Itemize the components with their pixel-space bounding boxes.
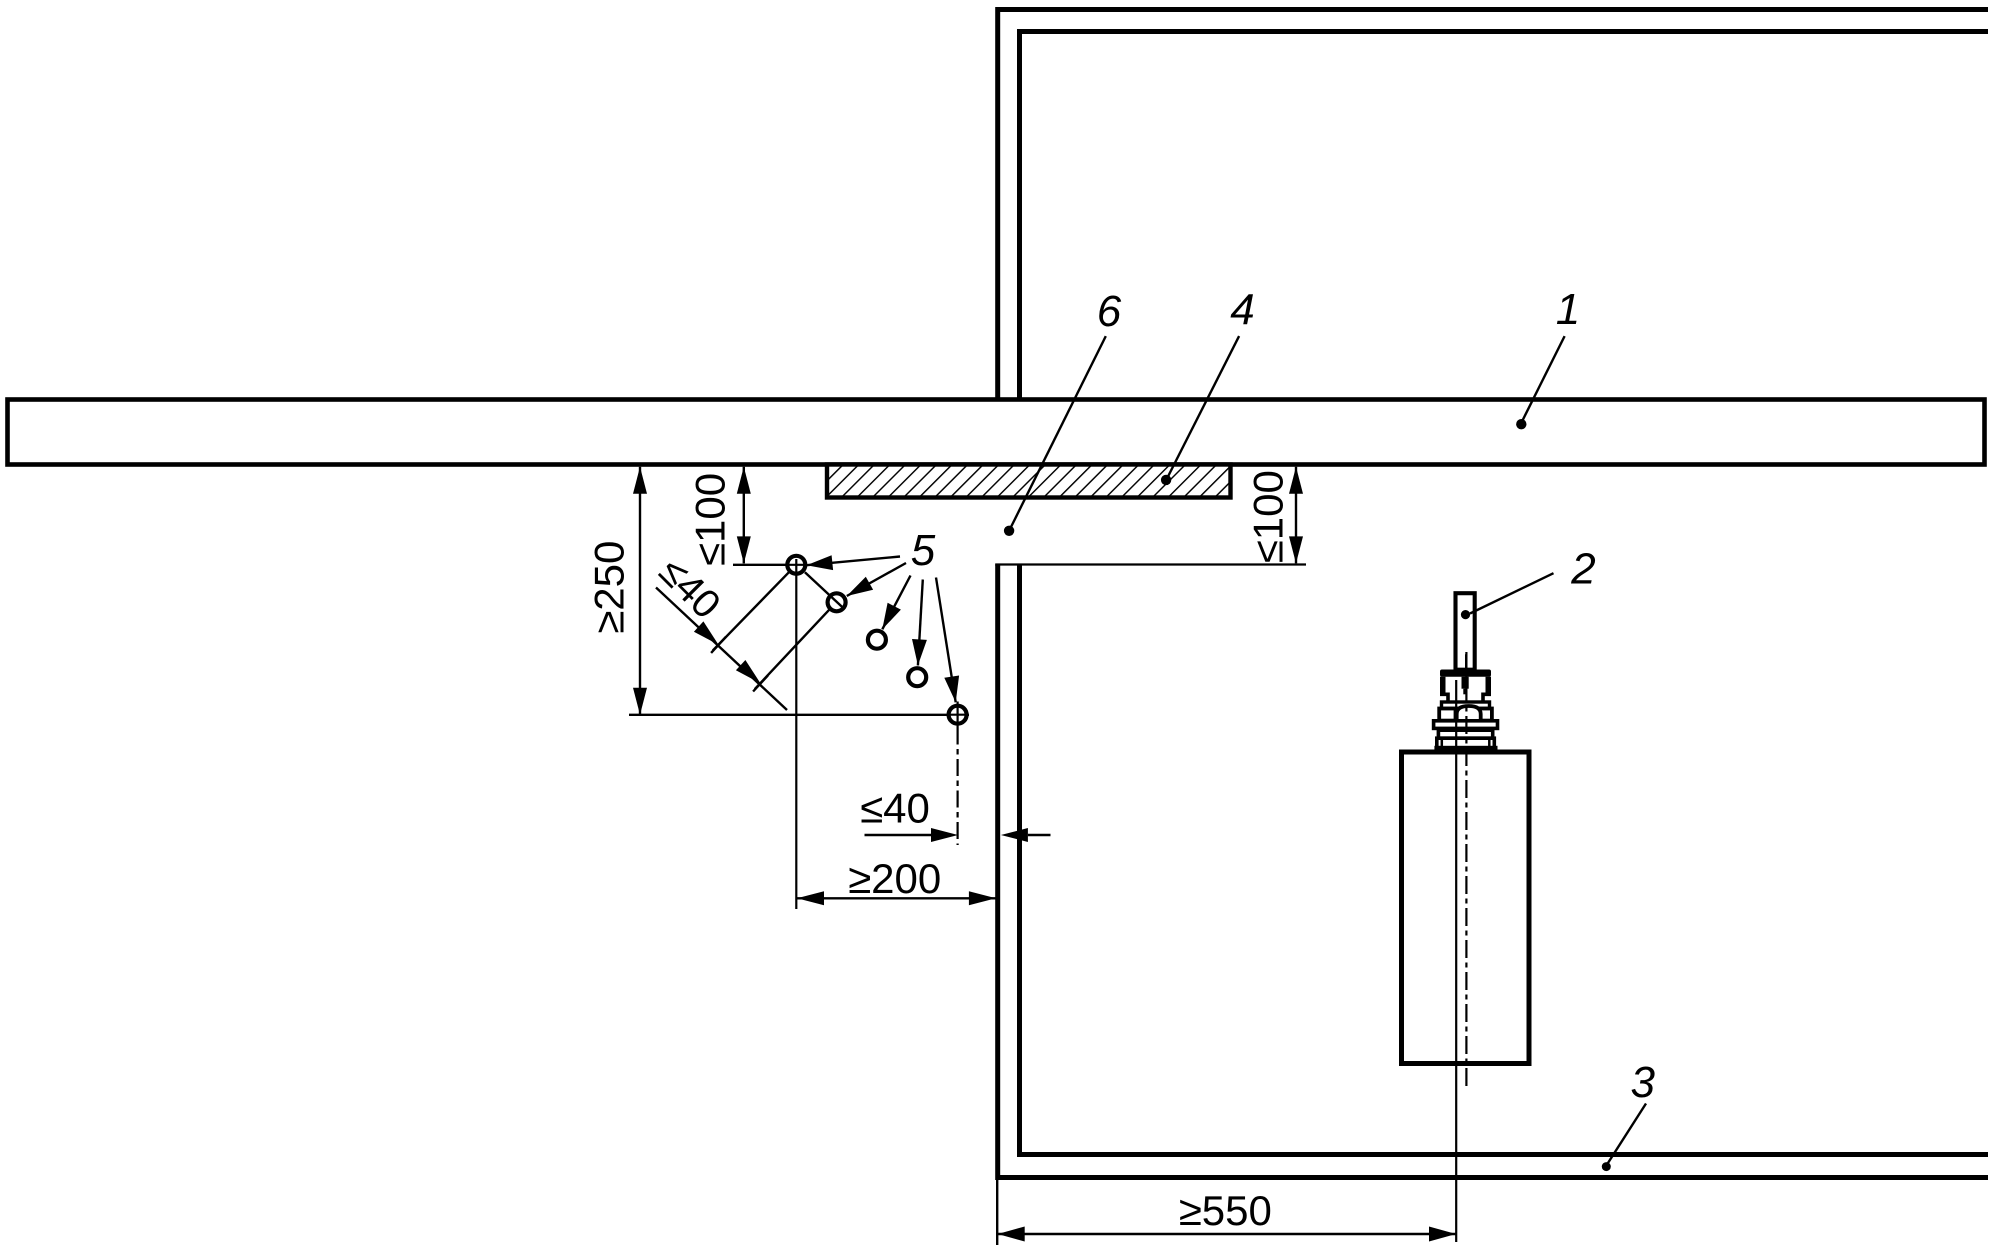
label 2 leader — [1470, 573, 1554, 613]
label 5 leader to circle C — [882, 576, 910, 630]
label 4 leader dot — [1161, 475, 1171, 485]
dimension <=40 horizontal arrow right (pointing left to wall) — [1001, 828, 1028, 842]
valve ring flange — [1442, 702, 1490, 709]
label 3 leader — [1607, 1104, 1646, 1165]
dimension >=550 line — [998, 1233, 1456, 1235]
fixing circle D (item 5) — [908, 668, 926, 686]
gas cylinder 2: body — [1402, 752, 1530, 1064]
svg-text:3: 3 — [1631, 1058, 1656, 1107]
label 1 leader dot — [1516, 419, 1526, 429]
svg-text:1: 1 — [1556, 285, 1580, 334]
label 2 leader dot — [1461, 610, 1470, 619]
circle A horizontal cross redraw — [787, 564, 807, 566]
lower wall 3 inner line — [1020, 565, 1989, 1155]
extension line below wall for dim >=550 — [996, 1180, 998, 1245]
valve washer 1 — [1434, 721, 1498, 729]
svg-text:2: 2 — [1570, 545, 1595, 594]
dimension <=100 left line — [743, 467, 745, 564]
dimension >=200 line — [797, 897, 996, 899]
label 5 leader to circle E — [936, 578, 956, 703]
diagonal extension line from circle A — [713, 572, 789, 651]
label 5 leader to circle A — [807, 557, 901, 566]
valve collar top flange — [1440, 670, 1491, 677]
valve window band — [1439, 709, 1492, 721]
cross lines of circle E — [956, 702, 958, 728]
valve washer 2 — [1438, 730, 1492, 738]
valve collar central pin — [1462, 677, 1469, 689]
cross lines of circle A — [795, 559, 797, 909]
diagonal dimension tick 1 — [711, 637, 726, 653]
diagonal dimension tick 2 — [753, 675, 768, 691]
dimension >=250 line — [639, 467, 641, 715]
circle E horizontal cross redraw — [948, 714, 969, 716]
label 3 leader dot — [1602, 1162, 1611, 1171]
diagonal dimension <=40 line — [656, 588, 787, 711]
fixing circle E (item 5) — [949, 706, 967, 724]
centerline (dash-dot) below circle E — [956, 728, 958, 846]
extension line from dim >=250 through circle E center — [629, 714, 969, 716]
diagonal extension line from circle B — [755, 609, 830, 689]
label 6 leader dot — [1004, 526, 1014, 536]
valve dome — [1457, 706, 1481, 721]
svg-text:≥250: ≥250 — [586, 541, 633, 634]
svg-text:4: 4 — [1230, 286, 1254, 335]
fixing circle B (item 5) — [828, 593, 846, 611]
svg-text:≤100: ≤100 — [1245, 470, 1292, 563]
svg-text:6: 6 — [1097, 287, 1122, 336]
slab 1 (floor slab crossing the wall) — [8, 400, 1985, 465]
svg-text:≤40: ≤40 — [860, 785, 930, 832]
label 4 leader — [1168, 336, 1240, 477]
seal block 4 (hatched) — [827, 465, 1231, 498]
label 5 leader to circle B — [847, 563, 906, 596]
label 5 leader to circle D — [918, 580, 923, 666]
line connecting circle A and circle B — [805, 572, 844, 609]
extension line for >=550 through cylinder — [1455, 680, 1457, 1242]
valve collar right side — [1486, 677, 1492, 695]
fixing circle C (item 5) — [868, 631, 886, 649]
dimension <=40 horizontal line left part — [865, 834, 932, 836]
lower wall 3 outer line — [998, 565, 1988, 1178]
svg-text:≤100: ≤100 — [687, 473, 734, 566]
dip tube inner center line — [1465, 654, 1467, 670]
valve base bottom bar — [1434, 746, 1497, 752]
svg-text:≥550: ≥550 — [1179, 1187, 1272, 1234]
valve base — [1437, 738, 1495, 750]
valve collar left side — [1440, 677, 1446, 695]
label 6 leader — [1011, 336, 1106, 528]
fixing circle A (item 5) — [787, 556, 805, 574]
svg-text:≥200: ≥200 — [848, 855, 941, 902]
valve neck steps — [1440, 694, 1491, 702]
lower wall top face / extension line for dim <=100 right — [995, 563, 1306, 565]
label 1 leader — [1523, 336, 1565, 420]
upper wall inner line — [1020, 32, 1989, 400]
svg-text:5: 5 — [911, 526, 936, 575]
cylinder centerline (dash-dot) — [1465, 652, 1467, 1089]
extension line from dim <=100 through circle A center — [733, 564, 807, 566]
gas cylinder 2: dip tube — [1456, 593, 1475, 670]
dimension <=100 right line — [1295, 467, 1297, 564]
upper wall outer line — [998, 10, 1988, 400]
